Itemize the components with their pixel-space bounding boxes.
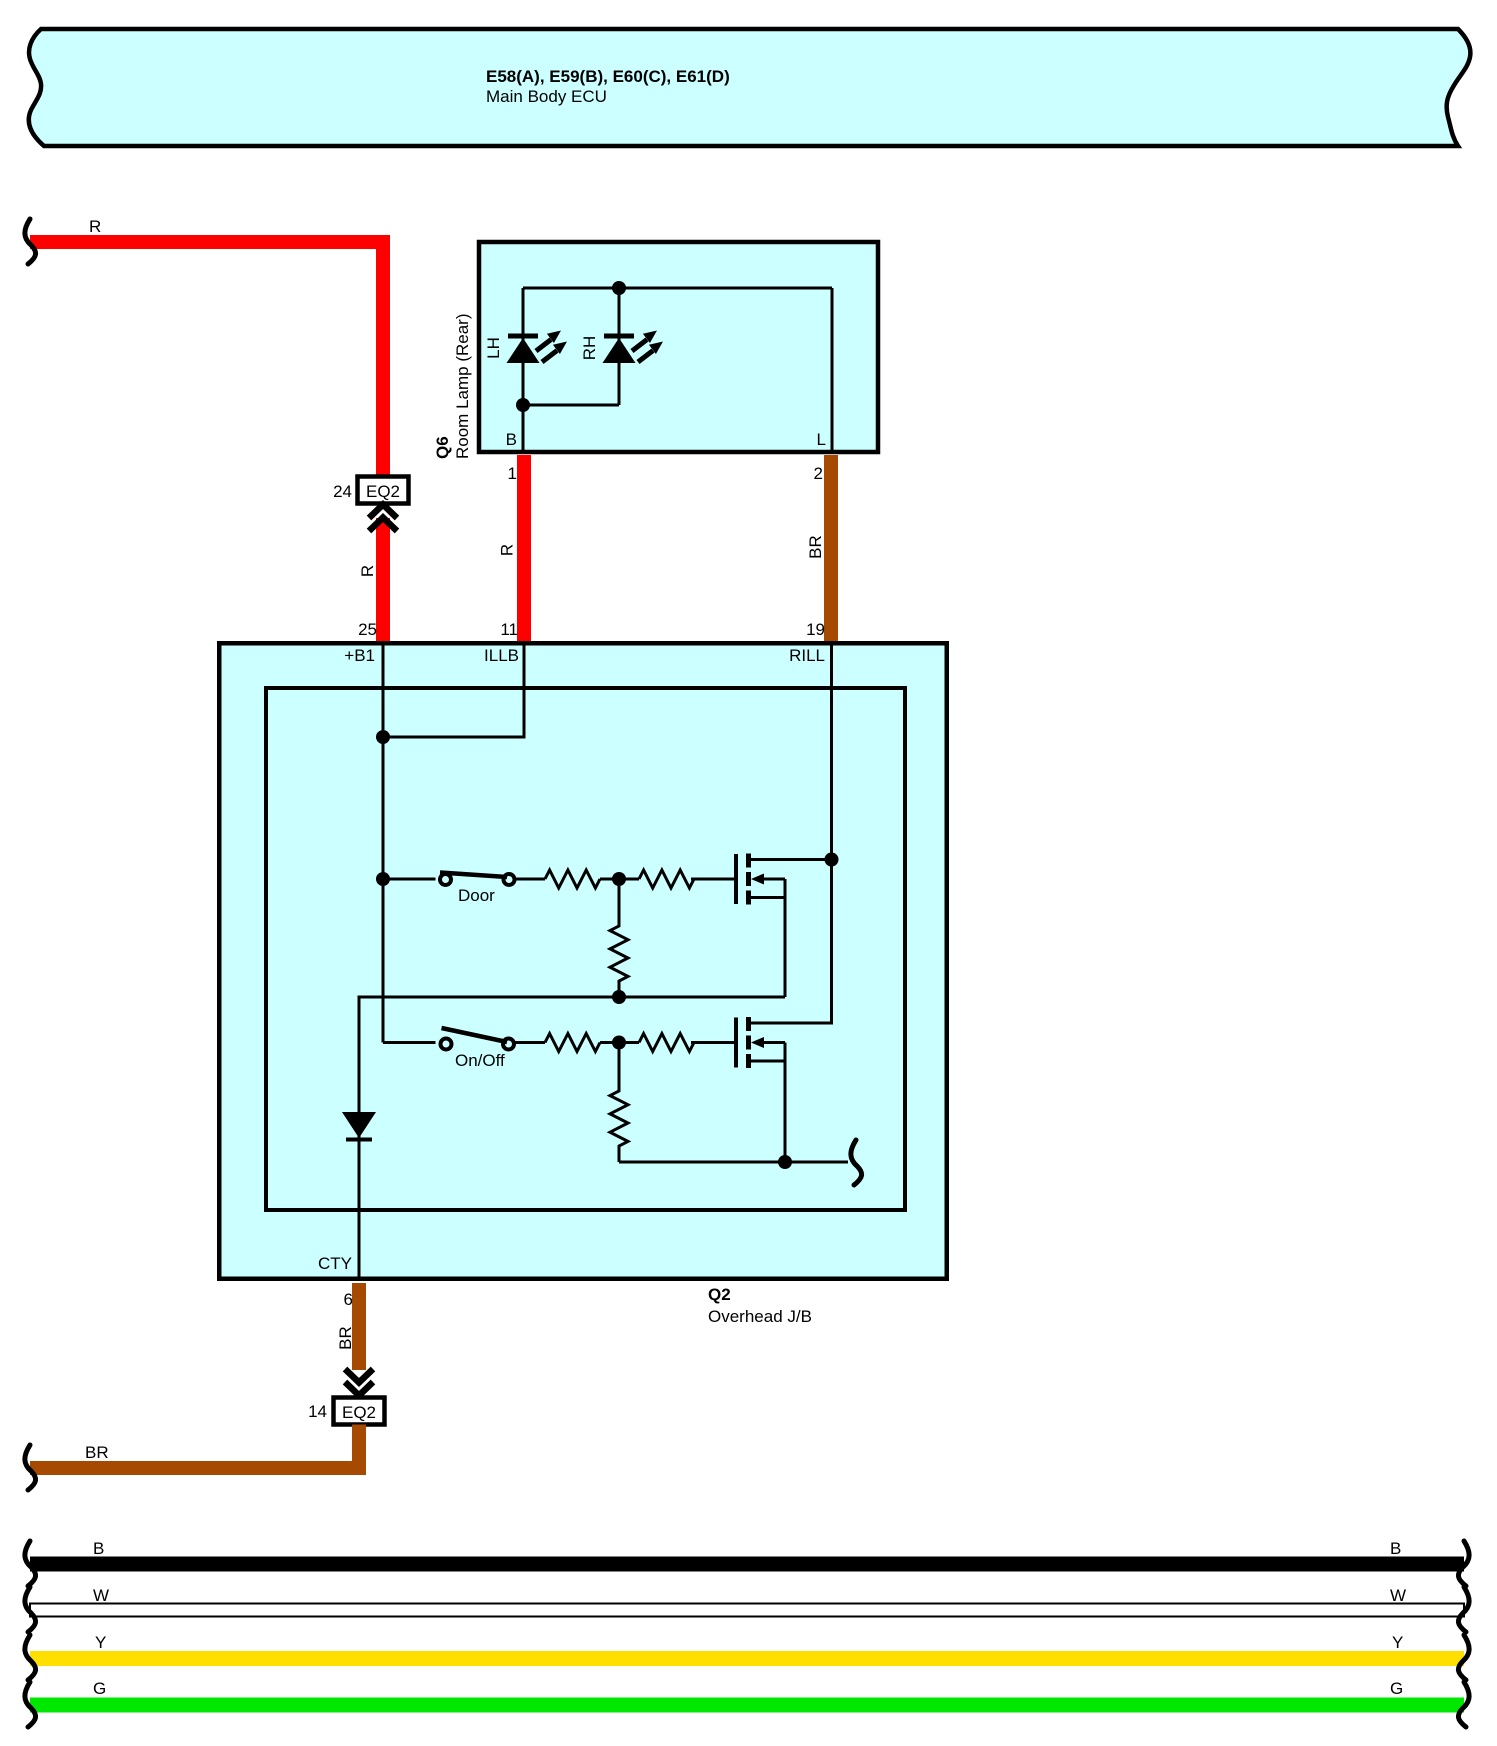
svg-text:On/Off: On/Off — [455, 1051, 505, 1070]
junction ILLB/+B1 — [376, 730, 390, 744]
connector EQ2 (24) — [358, 477, 409, 504]
male terminal chevrons (EQ2 top) — [369, 505, 397, 519]
wire R (red) Q6 pin1 to Q2 ILLB — [517, 455, 531, 643]
svg-text:W: W — [93, 1586, 109, 1605]
svg-text:W: W — [1390, 1586, 1406, 1605]
svg-text:1: 1 — [508, 464, 517, 483]
svg-text:14: 14 — [308, 1402, 327, 1421]
junction mid on/off row — [612, 1036, 626, 1050]
wire end curl left (brown wire) — [25, 1445, 36, 1490]
svg-text:Q6: Q6 — [433, 436, 452, 459]
svg-text:Door: Door — [458, 886, 495, 905]
svg-text:RH: RH — [580, 336, 599, 361]
male terminal chevrons (EQ2 bottom, pointing down) — [345, 1369, 373, 1383]
wire BR (brown) Q6 pin2 to Q2 RILL — [824, 455, 838, 643]
svg-text:G: G — [93, 1679, 106, 1698]
svg-text:R: R — [358, 565, 377, 577]
svg-text:Main Body ECU: Main Body ECU — [486, 87, 607, 106]
junction source/ground — [778, 1155, 792, 1169]
junction bottom — [516, 398, 530, 412]
junction door row — [376, 872, 390, 886]
connector EQ2 (14) — [334, 1398, 385, 1425]
wire RH vertical — [618, 288, 621, 405]
svg-text:CTY: CTY — [318, 1254, 352, 1273]
bus wire B (black) — [30, 1557, 1464, 1572]
svg-text:6: 6 — [344, 1290, 353, 1309]
svg-text:Overhead J/B: Overhead J/B — [708, 1307, 812, 1326]
wire BR (brown) to left edge — [30, 1425, 359, 1469]
resistor R6 vertical — [610, 1043, 628, 1163]
wire R vertical 24-25 (red) — [376, 518, 390, 643]
transistor Q-top MOSFET — [736, 854, 832, 998]
svg-text:+B1: +B1 — [344, 646, 375, 665]
svg-text:EQ2: EQ2 — [342, 1403, 376, 1422]
svg-text:Y: Y — [95, 1633, 106, 1652]
svg-text:G: G — [1390, 1679, 1403, 1698]
inner box — [266, 688, 905, 1210]
wire LH vertical — [522, 288, 525, 452]
svg-text:BR: BR — [85, 1443, 109, 1462]
wire ILLB internal — [383, 643, 524, 737]
wire mid horizontal (y=997) and CTY down — [359, 997, 785, 1281]
svg-text:B: B — [1390, 1539, 1401, 1558]
svg-text:Room Lamp (Rear): Room Lamp (Rear) — [453, 314, 472, 460]
LED RH — [603, 331, 664, 364]
svg-text:R: R — [89, 217, 101, 236]
wire BR (brown) CTY pin 6 down — [352, 1283, 366, 1370]
wire +B1 internal vertical — [382, 643, 385, 1043]
wire break curl (ground) — [851, 1140, 862, 1185]
svg-text:LH: LH — [484, 337, 503, 359]
svg-text:B: B — [93, 1539, 104, 1558]
resistor R4 — [545, 1034, 600, 1052]
svg-text:24: 24 — [333, 482, 352, 501]
svg-text:R: R — [498, 544, 517, 556]
bus wire G (green) — [30, 1698, 1464, 1713]
On/Off row wire — [383, 1041, 436, 1044]
Door row wire — [383, 878, 436, 881]
wire RILL internal — [751, 643, 832, 1023]
junction y997 — [612, 990, 626, 1004]
svg-text:B: B — [506, 430, 517, 449]
diode D1 — [342, 1112, 376, 1138]
svg-text:EQ2: EQ2 — [366, 482, 400, 501]
resistor R5 — [639, 1034, 694, 1052]
resistor R2 — [639, 870, 694, 888]
wire end curl left (red wire) — [25, 219, 36, 264]
svg-text:BR: BR — [336, 1326, 355, 1350]
svg-text:ILLB: ILLB — [484, 646, 519, 665]
junction mid door row — [612, 872, 626, 886]
bus wire Y (yellow) — [30, 1651, 1464, 1666]
switch On/Off — [441, 1039, 452, 1050]
svg-text:2: 2 — [814, 464, 823, 483]
svg-text:BR: BR — [806, 535, 825, 559]
wire bottom link — [523, 404, 619, 407]
svg-text:E58(A), E59(B), E60(C), E61(D): E58(A), E59(B), E60(C), E61(D) — [486, 67, 730, 86]
junction RILL/drain — [825, 853, 839, 867]
transistor Q-bottom MOSFET — [736, 1017, 785, 1162]
junction top — [612, 281, 626, 295]
svg-text:19: 19 — [806, 620, 825, 639]
svg-text:L: L — [817, 430, 826, 449]
wire top inside Q6 — [523, 287, 832, 290]
svg-text:11: 11 — [500, 620, 518, 639]
LED LH — [507, 331, 568, 364]
Overhead J/B Q2 box — [219, 643, 947, 1279]
bus wire W (white) — [30, 1604, 1464, 1617]
resistor R1 — [545, 870, 600, 888]
svg-text:RILL: RILL — [789, 646, 825, 665]
wire R (red) from Main Body ECU, horizontal then down to EQ2 — [30, 242, 383, 478]
svg-text:25: 25 — [358, 620, 377, 639]
ground wire y=1162 — [619, 1161, 848, 1164]
switch Door — [440, 874, 451, 885]
wire L vertical — [831, 288, 834, 452]
connector banner E58/E59/E60/E61 Main Body ECU — [29, 29, 1471, 146]
resistor R3 vertical — [610, 879, 628, 997]
svg-text:Q2: Q2 — [708, 1285, 731, 1304]
svg-text:Y: Y — [1392, 1633, 1403, 1652]
Room Lamp (Rear) Q6 box — [479, 242, 878, 452]
